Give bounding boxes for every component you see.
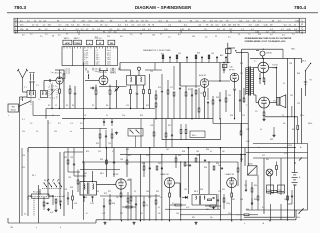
ground bottom 1 (132, 222, 135, 225)
svg-text:a: a (36, 227, 37, 229)
MF2 tuning capacitors (83, 197, 94, 203)
svg-text:R40: R40 (204, 167, 207, 169)
small box top right (225, 49, 231, 54)
ground right mid (272, 134, 275, 137)
IF transformer MF2 box (80, 181, 97, 195)
svg-text:¼ ECC 85: ¼ ECC 85 (98, 71, 108, 74)
capacitor C12 (136, 85, 138, 109)
switch SK2 (302, 61, 311, 72)
tube V6 EABC80 detector (165, 178, 175, 188)
tube V8 EL84 upper (258, 62, 269, 73)
svg-text:MF 2: MF 2 (100, 173, 104, 175)
svg-text:C58: C58 (289, 63, 292, 65)
left lower wires (28, 148, 86, 176)
V7 grid resistor (240, 124, 242, 136)
relay box mid right (190, 131, 205, 138)
wire MF1 connections (120, 70, 139, 76)
wire right rail down (302, 88, 306, 144)
svg-text:7-8 b: 7-8 b (84, 64, 88, 66)
svg-text:R2: R2 (48, 105, 50, 107)
resistor R11 (143, 85, 145, 109)
lower component cluster 2 (143, 162, 151, 177)
battery arrows right (304, 75, 313, 88)
svg-text:10k: 10k (158, 213, 161, 215)
svg-text:C38: C38 (84, 197, 87, 199)
voltage band left label column (15, 18, 18, 34)
wire rail x294.6 (294, 58, 296, 163)
wire bottom bus main (96, 220, 296, 223)
svg-text:C31: C31 (178, 53, 181, 55)
svg-text:SK 2: SK 2 (302, 61, 306, 63)
junction dots V3 area (223, 50, 236, 63)
wire speaker return y116.8 (265, 106, 298, 125)
svg-text:R41: R41 (232, 199, 235, 201)
header rule (7, 12, 318, 14)
svg-text:105: 105 (192, 36, 195, 38)
label V6 (161, 173, 170, 176)
wire antenna ground stub (22, 97, 24, 101)
V5 cathode components (120, 189, 122, 220)
svg-text:780.4: 780.4 (294, 5, 306, 11)
wire bus heater (62, 118, 213, 120)
svg-text:R19: R19 (96, 143, 99, 145)
component box above V3 (223, 64, 233, 68)
svg-text:R21: R21 (168, 125, 171, 127)
svg-text:R13: R13 (140, 115, 143, 117)
output stage frame top (242, 49, 283, 59)
AGC resistor chain (162, 55, 227, 63)
svg-text:C55: C55 (244, 185, 247, 187)
svg-text:4,5: 4,5 (205, 37, 208, 39)
svg-text:4,5: 4,5 (24, 214, 26, 216)
svg-text:215: 215 (258, 34, 261, 36)
label keyboard (44, 180, 48, 182)
ground near dashed box (115, 132, 118, 135)
svg-text:1,2: 1,2 (168, 37, 171, 39)
svg-text:R7: R7 (92, 105, 94, 107)
detector extra parts (217, 194, 258, 216)
voltage band entries (20, 20, 300, 33)
svg-text:C 3: C 3 (50, 83, 53, 85)
svg-text:0,1: 0,1 (210, 151, 212, 153)
svg-text:C: C (301, 26, 303, 30)
svg-text:6,3V∼: 6,3V∼ (111, 72, 117, 74)
indicator small circle (256, 51, 272, 59)
resistor R7 (95, 85, 97, 109)
EL84 cathode resistor R40 (263, 73, 265, 85)
svg-text:50µ: 50µ (210, 217, 213, 219)
svg-text:0: 0 (244, 223, 245, 225)
label V7 (224, 172, 234, 176)
svg-text:C49: C49 (186, 165, 189, 167)
voltage band table frame (14, 18, 306, 33)
svg-text:1,1: 1,1 (248, 34, 251, 36)
bottom left marks (24, 205, 45, 216)
component table header boxes (63, 40, 115, 45)
resistor pair mid (180, 124, 187, 140)
svg-text:220: 220 (54, 131, 57, 133)
svg-text:C48: C48 (196, 151, 199, 153)
mid bottom labels (84, 151, 264, 225)
svg-text:DIAGRAM POS 1, SKJULT MED: DIAGRAM POS 1, SKJULT MED (143, 49, 171, 52)
voltage band right label column (299, 18, 303, 34)
svg-text:C56: C56 (240, 199, 243, 201)
svg-text:R37: R37 (222, 189, 225, 191)
tube pin voltage labels (40, 36, 231, 39)
wire top bus left drop (119, 63, 121, 71)
component table footnotes (51, 68, 116, 74)
svg-text:0,7: 0,7 (160, 34, 163, 36)
rectifier box (248, 164, 258, 176)
svg-text:0,8: 0,8 (120, 36, 123, 38)
wire y115.5 segment left (33, 101, 60, 116)
wire detector to V6 (175, 183, 181, 197)
FM unit label box (8, 104, 19, 112)
tuning gang dashed link (30, 99, 32, 105)
svg-text:C44: C44 (148, 197, 151, 199)
V2 cathode resistor (204, 87, 206, 118)
svg-text:C44: C44 (196, 155, 199, 157)
label V5 (113, 174, 133, 181)
svg-text:STØRRELSERNE I VOLT. TOLERANCE: STØRRELSERNE I VOLT. TOLERANCE ±15% (245, 40, 286, 43)
svg-text:C57: C57 (262, 155, 265, 157)
wire rail x248.2 (247, 53, 249, 166)
oscillator coil L4 (85, 71, 99, 81)
wire bottom rise right (295, 210, 297, 220)
svg-text:780 L: 780 L (291, 48, 296, 50)
wire SK2 to rail (296, 58, 306, 75)
svg-text:C51: C51 (218, 191, 221, 193)
antenna feed capacitors (30, 74, 35, 91)
svg-text:3-4 a: 3-4 a (107, 64, 111, 66)
svg-text:C8: C8 (84, 115, 86, 117)
wire P1 left (28, 196, 32, 200)
svg-text:95: 95 (66, 34, 68, 36)
svg-text:¼ ECC 85: ¼ ECC 85 (53, 71, 63, 74)
svg-text:C45: C45 (184, 189, 187, 191)
svg-text:C26: C26 (150, 125, 153, 127)
svg-text:R26: R26 (104, 193, 107, 195)
detector area labels (182, 151, 235, 201)
svg-text:0,9: 0,9 (22, 34, 25, 36)
wire bus AVC (46, 108, 155, 110)
more left labels (8, 83, 83, 229)
svg-text:C35: C35 (211, 53, 214, 55)
svg-text:T 1: T 1 (254, 61, 256, 63)
svg-text:P1 0,5M: P1 0,5M (33, 192, 40, 194)
wire AVC bus y148 (28, 146, 214, 148)
label EL84 upper (273, 65, 279, 70)
wire drops y118 to 140 (136, 119, 221, 148)
bus capacitor stubs (103, 119, 113, 126)
switch cluster components (52, 195, 61, 209)
wire rail x83.5 (83, 63, 85, 220)
svg-text:L 1: L 1 (20, 99, 22, 101)
svg-text:SK1d: SK1d (296, 217, 300, 219)
power extra resistors (246, 175, 296, 210)
svg-text:2,1: 2,1 (40, 36, 43, 38)
wire rail x287.6 (287, 58, 289, 220)
svg-text:L 2: L 2 (38, 99, 40, 101)
svg-text:4,7k: 4,7k (186, 207, 189, 209)
wire rail x48 (47, 120, 49, 196)
dashed switch box mid (128, 129, 143, 137)
wire caps to bus (271, 204, 281, 220)
svg-text:R32: R32 (156, 191, 159, 193)
svg-text:R38: R38 (182, 151, 185, 153)
svg-text:C39: C39 (128, 203, 131, 205)
wire EL84 upper anode (262, 58, 264, 62)
svg-text:EL 84: EL 84 (273, 65, 279, 67)
top cap junction circle (137, 67, 140, 70)
wire V1a bus drop (45, 109, 47, 119)
svg-text:6,3: 6,3 (95, 37, 98, 39)
wire bus y162 (83, 161, 238, 163)
FM unit pointer line (19, 101, 32, 107)
cathode resistor R2 (59, 84, 61, 108)
wire bus y154.4 (120, 153, 246, 155)
wire left rail (20, 97, 28, 223)
svg-text:R 5: R 5 (58, 123, 61, 125)
electrolytic capacitor C60 (267, 176, 274, 195)
wire bus y86.5 segment (99, 86, 127, 88)
middle component cluster 5 (239, 88, 245, 112)
P1 ground (47, 208, 50, 211)
svg-text:R15: R15 (22, 167, 25, 169)
svg-text:C46: C46 (176, 213, 179, 215)
svg-text:R34: R34 (192, 217, 195, 219)
loudspeaker (277, 95, 286, 108)
svg-text:C21: C21 (228, 95, 231, 97)
component table entries (84, 50, 111, 66)
wire MF2 to V5 (97, 183, 116, 185)
padder capacitor C9 (90, 87, 97, 89)
component table column lines (72, 47, 105, 66)
middle component cluster 1 (155, 90, 157, 119)
antenna dipole (17, 69, 28, 92)
svg-text:R47: R47 (294, 185, 297, 187)
svg-text:0,5: 0,5 (36, 131, 38, 133)
label V1 ECC85 (53, 71, 63, 74)
wire rail x241.6 (241, 49, 243, 162)
dial lamp (266, 169, 273, 176)
svg-text:50µ: 50µ (268, 190, 271, 192)
svg-text:R49: R49 (292, 129, 295, 131)
svg-text:0,05: 0,05 (50, 212, 53, 214)
svg-text:C40: C40 (120, 159, 123, 161)
wire rail x28 (27, 148, 29, 216)
tuner coil L1 box (27, 91, 36, 98)
svg-text:0,4: 0,4 (270, 34, 273, 36)
more pin voltage labels (22, 34, 295, 37)
resistor R12 (149, 74, 151, 109)
tube V2 ECH81 (200, 79, 209, 88)
label V1b (98, 71, 108, 74)
lower component cluster 3 (156, 154, 177, 170)
wire rail x64 (63, 152, 65, 216)
svg-text:0,02: 0,02 (102, 213, 105, 215)
tube V3 EF89 (230, 73, 239, 82)
wire T1 to EL84 lower (254, 95, 259, 103)
svg-text:R16: R16 (188, 89, 191, 91)
wire speaker leads (269, 68, 277, 103)
svg-text:C 1: C 1 (24, 87, 27, 89)
svg-text:C30: C30 (74, 203, 77, 205)
V5 screen resistor (127, 180, 132, 220)
svg-text:R24: R24 (197, 53, 200, 55)
electrolytic capacitor C61 (278, 158, 285, 195)
resistor R4 (69, 85, 71, 109)
svg-text:R24: R24 (128, 155, 131, 157)
svg-text:2,2: 2,2 (30, 123, 32, 125)
svg-text:DIAGRAM – SPÆNDINGER: DIAGRAM – SPÆNDINGER (135, 5, 192, 10)
wire power bottom (244, 144, 308, 218)
EL84 lower cathode network (262, 108, 265, 121)
svg-text:2,5: 2,5 (130, 34, 133, 36)
svg-text:B250: B250 (249, 164, 253, 166)
svg-text:0,1: 0,1 (134, 191, 136, 193)
grid capacitor C3 (48, 79, 56, 81)
wire right edge power (296, 144, 308, 211)
dashed line y196 left (30, 196, 64, 198)
svg-text:C34: C34 (70, 157, 73, 159)
svg-text:T 2: T 2 (246, 105, 248, 107)
svg-text:C36: C36 (230, 66, 233, 68)
svg-text:C 2: C 2 (36, 85, 39, 87)
svg-text:R36: R36 (200, 189, 203, 191)
label EL84 lower (274, 101, 280, 103)
wire top bus (120, 62, 230, 64)
driver transformer primary winding (246, 68, 248, 96)
svg-text:R22: R22 (161, 54, 164, 56)
extra keyboard contacts (47, 179, 59, 181)
wire T1 to EL84 upper (254, 67, 258, 69)
wire V2 input (180, 63, 200, 87)
tube V5 EF89 IF amplifier (116, 179, 126, 189)
svg-text:780: 780 (10, 227, 13, 229)
svg-text:R8: R8 (106, 105, 108, 107)
ground switch cluster (54, 209, 57, 212)
svg-text:C50: C50 (64, 189, 67, 191)
wire L2 to V1a (44, 81, 48, 91)
decoupling capacitor C5 (51, 84, 53, 109)
smoothing resistor (266, 191, 284, 193)
svg-text:9,5: 9,5 (292, 34, 295, 36)
mid cluster y132-145 (96, 128, 113, 148)
middle component cluster 4 (212, 90, 227, 119)
svg-text:R4: R4 (72, 105, 74, 107)
svg-text:C37: C37 (240, 73, 243, 75)
svg-text:0,2: 0,2 (58, 35, 61, 37)
junction dots bus (59, 108, 131, 120)
svg-text:C20: C20 (22, 155, 25, 157)
svg-text:SK2b: SK2b (308, 123, 312, 125)
svg-text:C53: C53 (240, 159, 243, 161)
svg-text:R44: R44 (254, 185, 257, 187)
svg-text:+B: +B (262, 223, 264, 225)
svg-text:R48: R48 (297, 73, 300, 75)
svg-text:C42: C42 (158, 163, 161, 165)
wire V1a top (55, 70, 64, 77)
resistor R8 (109, 85, 111, 109)
svg-text:C52: C52 (228, 213, 231, 215)
wire heater jog right (213, 119, 248, 124)
svg-text:12: 12 (78, 34, 80, 36)
bottom mid horizontals (100, 196, 240, 215)
svg-text:105: 105 (152, 34, 155, 36)
mid cluster x150-214 y122-148 (150, 119, 173, 148)
battery pack symbol (292, 163, 301, 217)
svg-text:C32: C32 (98, 151, 101, 153)
wire stub 274 (273, 127, 275, 134)
tuner coil L2 box (40, 91, 47, 98)
EL84 grid capacitor (259, 73, 261, 84)
svg-text:la: la (258, 147, 259, 149)
ground bottom 1b (103, 222, 106, 225)
resistor above lamp (276, 161, 278, 176)
wire test point drops (86, 68, 119, 71)
svg-text:R20: R20 (86, 151, 89, 153)
svg-text:C36: C36 (146, 155, 149, 157)
voltage band rows (14, 22, 306, 31)
svg-text:R27: R27 (108, 191, 111, 193)
svg-text:48: 48 (52, 36, 54, 38)
middle component cluster 3 (185, 86, 193, 119)
component table header texts (64, 37, 102, 40)
lower component cluster 1 (106, 148, 128, 177)
svg-text:ECH 81: ECH 81 (199, 75, 207, 77)
wire earth line x22 (21, 148, 23, 216)
svg-text:C59: C59 (297, 103, 300, 105)
component table body frame (62, 47, 117, 66)
V3 screen capacitor (233, 82, 235, 119)
svg-text:SPÆNDINGER MÅLT MED 20.000 Ω/V: SPÆNDINGER MÅLT MED 20.000 Ω/V VOLTMETER (245, 37, 292, 40)
power switch marks (294, 158, 302, 164)
svg-text:2,2M: 2,2M (90, 203, 94, 205)
wire power vertical x245 (244, 148, 246, 166)
svg-text:R26: R26 (230, 115, 233, 117)
svg-text:0,1: 0,1 (158, 207, 160, 209)
svg-text:R29: R29 (120, 213, 123, 215)
svg-text:EF 89: EF 89 (229, 70, 235, 72)
lower component cluster 6 (245, 180, 253, 205)
svg-text:C5: C5 (55, 105, 57, 107)
svg-text:R29: R29 (126, 149, 129, 151)
svg-text:C29: C29 (68, 177, 71, 179)
tube V9 EL84 lower (259, 97, 270, 108)
svg-text:C 7: C 7 (48, 123, 51, 125)
svg-text:5k6: 5k6 (218, 165, 221, 167)
svg-text:C23: C23 (108, 143, 111, 145)
svg-text:R25: R25 (64, 157, 67, 159)
svg-text:R42: R42 (266, 159, 269, 161)
resistor R10 (130, 85, 132, 109)
extra junction dots (51, 108, 270, 222)
svg-text:C41: C41 (166, 149, 169, 151)
svg-text:TAST 2: TAST 2 (74, 37, 80, 40)
svg-text:C43: C43 (146, 191, 149, 193)
rail resistor SK2b (297, 126, 299, 144)
wire power vertical x264 (263, 158, 265, 214)
svg-text:C15: C15 (150, 71, 153, 73)
svg-text:6,3: 6,3 (282, 34, 285, 36)
svg-text:0,1: 0,1 (260, 129, 262, 131)
V7 cathode network (231, 188, 233, 220)
label AGC (161, 53, 214, 56)
svg-text:C33: C33 (96, 191, 99, 193)
wire y139.7 segment mid (162, 139, 220, 141)
svg-text:B: B (301, 30, 303, 34)
